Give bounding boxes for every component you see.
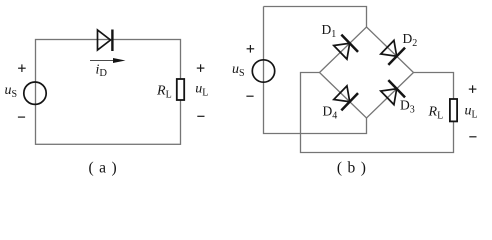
svg-text:uS: uS bbox=[232, 62, 245, 79]
svg-text:iD: iD bbox=[96, 63, 108, 80]
svg-text:( b ): ( b ) bbox=[337, 159, 367, 176]
svg-text:RL: RL bbox=[428, 105, 444, 122]
svg-text:( a ): ( a ) bbox=[89, 159, 118, 176]
svg-text:D4: D4 bbox=[323, 104, 338, 122]
svg-text:D2: D2 bbox=[403, 31, 418, 49]
svg-text:uL: uL bbox=[465, 104, 478, 121]
svg-text:RL: RL bbox=[156, 84, 172, 101]
svg-text:D3: D3 bbox=[400, 97, 415, 115]
svg-text:uS: uS bbox=[5, 83, 18, 100]
svg-text:uL: uL bbox=[195, 81, 208, 98]
svg-text:D1: D1 bbox=[322, 22, 337, 40]
